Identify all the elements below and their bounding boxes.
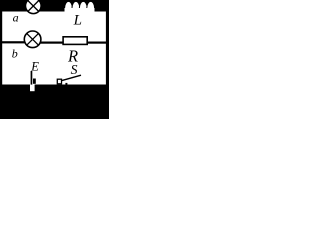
svg-text:E: E [30, 59, 39, 73]
svg-text:L: L [73, 13, 82, 29]
background [0, 0, 109, 119]
lamp b circle [24, 31, 41, 48]
switch S pivot box [57, 79, 61, 84]
bottom bus slab [0, 85, 109, 120]
wire: white gap under inductor [65, 8, 95, 12]
resistor R1 box [63, 37, 87, 45]
wire: right border [106, 11, 109, 86]
wire: mid segment resistor to right border [88, 42, 107, 44]
svg-text:a: a [13, 11, 19, 25]
battery E long plate [31, 71, 33, 85]
white slot under battery [30, 84, 35, 91]
switch S lever [62, 75, 81, 80]
lamp b X [27, 33, 39, 45]
wire: left border [0, 11, 2, 86]
wire: top bus bar (thick band) [0, 0, 109, 12]
wire: mid left segment [2, 41, 25, 43]
switch S contact bump [65, 83, 67, 86]
svg-text:b: b [12, 47, 18, 61]
battery E short thick plate [33, 79, 36, 84]
inductor L1 humps [65, 1, 95, 8]
wire: white mask below inductor baseline [65, 8, 94, 11]
lamp a circle [26, 0, 42, 14]
lamp a X [28, 1, 39, 12]
svg-text:S: S [71, 62, 78, 77]
wire: mid segment lamp b to resistor [41, 42, 64, 44]
